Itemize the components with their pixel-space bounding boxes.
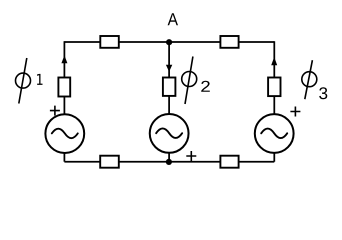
current arrow (up) on right branch	[271, 57, 277, 65]
ac source V1 (left) circle	[45, 114, 84, 153]
flux symbol phi1 circle	[16, 73, 31, 88]
flux symbol phi3 slash	[305, 60, 313, 99]
polarity + near bottom node	[186, 151, 196, 161]
node A label	[168, 13, 178, 25]
ac source V3 sine wave	[261, 129, 287, 139]
resistor (bottom left, horizontal box)	[100, 156, 119, 168]
resistor (left branch, vertical box)	[58, 78, 70, 97]
node A junction dot	[166, 39, 172, 45]
resistor (top left, horizontal box)	[100, 36, 119, 48]
resistor (top right, horizontal box)	[220, 36, 238, 48]
flux phi1 subscript 1	[37, 74, 43, 85]
flux symbol phi3 circle	[302, 72, 317, 87]
flux phi2 subscript 2	[201, 81, 210, 92]
ac source V2 sine wave	[156, 128, 182, 138]
wire: top horizontal bus	[64, 41, 274, 43]
flux symbol phi1 slash	[19, 58, 27, 104]
ac source V2 (middle) circle	[150, 114, 189, 153]
flux phi3 subscript 3	[319, 87, 327, 99]
current arrow (up) on left branch	[61, 55, 67, 63]
flux symbol phi2 slash	[185, 57, 193, 105]
current arrow (down) on middle branch	[166, 65, 172, 72]
polarity + of V3	[290, 107, 300, 117]
wire: bottom horizontal bus	[64, 161, 274, 163]
flux symbol phi2 circle	[182, 72, 197, 87]
ac source V3 (right) circle	[255, 114, 294, 153]
wire: left branch vertical	[63, 41, 65, 162]
polarity + of V1	[50, 106, 60, 116]
resistor (bottom right, horizontal box)	[220, 156, 238, 168]
resistor (middle branch, vertical box)	[163, 78, 176, 96]
wire: middle branch vertical	[168, 42, 170, 162]
wire: right branch vertical	[273, 41, 275, 162]
resistor (right branch, vertical box)	[268, 78, 280, 97]
bottom junction dot	[166, 159, 172, 165]
ac source V1 sine wave	[52, 129, 78, 139]
